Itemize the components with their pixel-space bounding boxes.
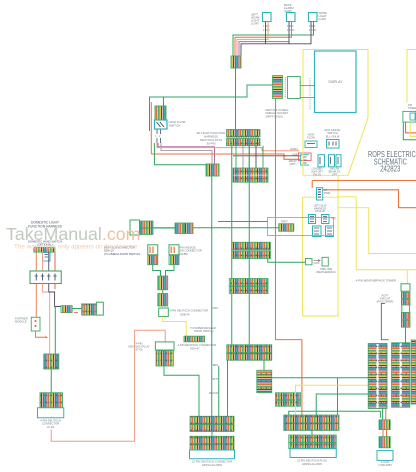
bottom-left connector sw [44, 354, 59, 369]
svg-text:(CAP): (CAP) [251, 22, 259, 26]
wire green Y center [162, 290, 164, 294]
wire salmon sw down [43, 284, 50, 355]
pins under switch S1 [157, 130, 161, 144]
wire gray switch to CN-B [161, 143, 212, 164]
watermark TakeManual.com [6, 224, 140, 244]
wire green M1 branch right [268, 259, 306, 263]
wire green CN-A to BL1 [235, 68, 237, 129]
shell R3 [290, 449, 336, 458]
label 57-06 [128, 341, 149, 351]
svg-text:1 BLK: 1 BLK [263, 25, 270, 28]
1CAN connector a [379, 420, 390, 430]
wire orange sw down to module [35, 284, 37, 318]
connector block M5 [276, 393, 301, 407]
svg-text:DT04-08: DT04-08 [315, 210, 325, 213]
wire green long B [248, 146, 250, 345]
svg-text:GRN: GRN [212, 307, 218, 310]
Y center connector 1 [158, 276, 168, 290]
svg-text:LF-D4: LF-D4 [47, 425, 55, 429]
wire green r-feed 1 [289, 411, 381, 418]
svg-text:HORN: HORN [290, 147, 298, 151]
wire salmon LF-D4 loop [51, 330, 165, 441]
wire green long A [231, 146, 233, 345]
Y left connector [148, 255, 158, 265]
connector block M3 wide [227, 345, 272, 361]
svg-text:OPT: OPT [332, 172, 338, 176]
wire green stack to col2 [405, 327, 407, 343]
work light LT3 [309, 13, 318, 22]
wire green branch to HF connector [163, 97, 165, 106]
label domestic light function harness [28, 221, 63, 229]
svg-text:TakeManual.com: TakeManual.com [6, 224, 140, 244]
label 1-pin wedge connector [178, 246, 202, 256]
label high flow opt [307, 133, 315, 140]
connector block M2 [229, 279, 268, 294]
title ROPS ELECTRICAL SCHEMATIC 242823 [368, 150, 416, 173]
wire green R1 to R2 [311, 431, 313, 436]
side labels left [209, 307, 218, 395]
wire green r-feed 3 [337, 378, 339, 415]
yellow box top [303, 50, 368, 176]
label 3D light function harness [197, 131, 226, 146]
svg-text:HDP24-24-23PN: HDP24-24-23PN [202, 463, 222, 467]
shell C3 [190, 450, 235, 459]
label high flow switch [169, 120, 186, 128]
yellow rectangle frame mid [302, 197, 338, 316]
wire orange 1CAN mid [383, 430, 387, 437]
wire orange module jog [36, 331, 48, 339]
wire green sw connector down [50, 369, 52, 393]
svg-text:2 TAN: 2 TAN [263, 29, 270, 32]
label hi-low beam [329, 167, 341, 177]
DDB-45 shell [159, 308, 169, 317]
57-06 connector [156, 351, 173, 367]
svg-text:ELL-GNLM: ELL-GNLM [326, 134, 340, 138]
cluster connector c [313, 226, 322, 237]
wire green display-connector to high flow switch [150, 85, 284, 131]
connector CN-B [206, 164, 219, 176]
label further module [15, 317, 28, 324]
wire green from switch right [154, 143, 206, 165]
label 22-pin deutsch connector [192, 460, 232, 467]
label 22 pin deutsch plug [297, 459, 327, 466]
wire orange long vertical [276, 99, 302, 415]
svg-text:30-PIN: 30-PIN [207, 142, 216, 146]
high flow opt symbol [305, 141, 317, 148]
svg-text:57-06: 57-06 [136, 348, 143, 352]
block C1 [190, 416, 234, 431]
svg-text:MODULE: MODULE [15, 320, 27, 324]
wire orange col1 to 1CAN [385, 409, 387, 420]
LF-D4 shell [38, 408, 64, 418]
svg-text:4-PIN DEUTSCH CONNECTOR: 4-PIN DEUTSCH CONNECTOR [178, 343, 217, 347]
wire navy sw3 [48, 252, 50, 271]
hi-low beam symbol [329, 155, 342, 167]
svg-text:DDB-45: DDB-45 [180, 312, 190, 316]
label DDA-47 [178, 343, 217, 350]
wire green stack sides [402, 305, 410, 312]
pin labels under LT1 [263, 25, 270, 32]
second terminal connector [175, 223, 193, 234]
connector HF plug [155, 106, 166, 120]
left harness shell [96, 302, 103, 315]
label 1-CAN [378, 460, 392, 467]
wire green 57-06 to bottom block [164, 366, 199, 416]
svg-text:1: 1 [155, 135, 157, 138]
wire green into dpdt upper [218, 221, 268, 223]
wire green CN-B long down [211, 176, 213, 416]
wire pink display 1 [300, 85, 314, 87]
column COL1 [368, 344, 387, 409]
wire red sw4 [54, 252, 56, 271]
wire pink display 2 [300, 97, 314, 99]
wire green col1 to 1CAN [382, 409, 384, 420]
terminal shell [130, 220, 140, 235]
wire magenta trunk [239, 42, 289, 56]
svg-text:HDP26-24-23SN: HDP26-24-23SN [302, 462, 322, 466]
label PB timer [408, 103, 416, 110]
wire green trunk to LT3 [233, 22, 314, 57]
svg-text:BECCR: BECCR [209, 392, 218, 395]
weatherpack box [322, 257, 328, 266]
relay box top right [403, 111, 416, 122]
label deutsch connector DDA-10 [104, 246, 140, 256]
Y center connector 2 [158, 294, 168, 307]
wire green feed c4 [227, 360, 229, 416]
cluster red tick [332, 217, 336, 219]
wire orange drum [151, 154, 301, 159]
DDA-47 connector [184, 336, 205, 342]
horn connector symbol [301, 155, 309, 165]
wire green Y left [153, 265, 161, 276]
horn option box [298, 153, 311, 161]
wire salmon trunk to LT1 [237, 22, 268, 57]
wire navy pin LT1 [265, 22, 267, 44]
label domestic hand switch [28, 240, 62, 247]
diode component [306, 259, 313, 265]
label pwm [324, 189, 330, 195]
svg-text:BRN: BRN [213, 364, 218, 367]
display connector shell [288, 77, 301, 99]
label DDB-45 [169, 309, 208, 317]
cluster connector d [326, 226, 334, 237]
wire green C1 to C2 [211, 432, 213, 437]
wire red from relay [406, 122, 416, 133]
block C2 [190, 436, 234, 450]
loader switch symbol [318, 155, 325, 167]
svg-text:4-PIN DEUTSCH CONNECTOR: 4-PIN DEUTSCH CONNECTOR [169, 309, 208, 313]
wire green r-feed 2 [316, 394, 368, 415]
label gun signal switch [324, 128, 341, 138]
svg-text:24PFF BK2(X): 24PFF BK2(X) [266, 114, 284, 118]
Y right connector [169, 255, 179, 265]
inline connector left [61, 306, 72, 313]
svg-text:2: 2 [159, 135, 161, 138]
wire green Y right [166, 265, 175, 276]
wire salmon sw2 [42, 252, 44, 271]
display connector column [273, 76, 283, 99]
yellow stub frame join [337, 175, 339, 197]
svg-text:DPDT: DPDT [281, 221, 288, 224]
wire green M4 to column1 [272, 377, 369, 379]
svg-text:242823: 242823 [380, 165, 401, 174]
wire yellow into stack [406, 270, 408, 292]
wires BL1 to BL2 [236, 146, 263, 168]
svg-text:DISPLAY: DISPLAY [328, 80, 343, 84]
stack connector a [401, 292, 410, 299]
stack connector d [401, 320, 410, 327]
wire navy pin LT2 [288, 22, 290, 44]
block R2 [289, 435, 337, 449]
label time one weatherpack [316, 267, 336, 274]
yellow branch y197 [338, 197, 416, 270]
label back-up alarm LT2 [284, 3, 294, 13]
cluster connector b [322, 215, 330, 224]
svg-text:SW D2: SW D2 [313, 172, 322, 176]
domestic aux box [43, 253, 51, 262]
wire green sw down [54, 307, 56, 355]
svg-text:1 BLK: 1 BLK [287, 25, 294, 28]
svg-text:(TO OMEGA DOOR SWITCH): (TO OMEGA DOOR SWITCH) [104, 252, 140, 256]
svg-text:(CAP): (CAP) [319, 17, 327, 21]
svg-text:(PACG BRKR): (PACG BRKR) [377, 300, 394, 304]
wire green into dpdt lower [153, 227, 279, 229]
wire navy sw to inline [49, 284, 61, 307]
svg-text:WHT: WHT [212, 378, 218, 381]
label loader switch [311, 167, 323, 177]
svg-text:DOOR SWITCH: DOOR SWITCH [194, 329, 213, 333]
yellow box right corner [407, 50, 416, 103]
label LF-D4 [40, 419, 61, 429]
pin text speck overlay on connector blocks [40, 130, 410, 450]
Y right plug [169, 245, 179, 255]
dpdt connector [279, 224, 294, 232]
wire orange into HF connector [150, 102, 152, 154]
wire green M3 to M4 [263, 360, 265, 370]
stack connector c [401, 312, 410, 319]
option frame orange [268, 218, 334, 236]
terminal connector [140, 221, 153, 235]
label left work light LT1 [251, 13, 260, 26]
yellow branch y207.7 [338, 208, 416, 254]
svg-text:PWM: PWM [324, 192, 330, 195]
svg-text:HI/B: HI/B [292, 152, 297, 156]
wire orange trunk to LT2 [235, 22, 292, 57]
wire salmon horn [157, 143, 299, 151]
svg-text:7-056-4887: 7-056-4887 [378, 463, 392, 467]
wire navy trunk return [241, 22, 311, 57]
57-06 shell [155, 342, 174, 350]
svg-text:1 BLK: 1 BLK [309, 25, 316, 28]
wire dark acpt hook [381, 304, 388, 340]
wire green inline to block [72, 308, 82, 310]
wire orange stub to pwm [311, 181, 313, 188]
further module component [31, 317, 40, 331]
svg-text:SWITCH: SWITCH [169, 124, 181, 128]
vertical connector block M4 [257, 370, 272, 393]
stack connector b [401, 300, 410, 306]
svg-text:4-PIN WEATHERPACK TOWER: 4-PIN WEATHERPACK TOWER [356, 279, 396, 283]
weatherpack tower shell [401, 284, 410, 291]
wire yellow DDB-45 to DDA-47 [163, 317, 187, 337]
1CAN connector b [379, 437, 390, 448]
left harness block [82, 304, 97, 315]
gun signal symbol [327, 140, 340, 149]
svg-text:WEATHERPACK: WEATHERPACK [316, 270, 336, 274]
label acpt circuit [377, 294, 394, 304]
wire yellow r-feed [296, 385, 369, 415]
high flow switch S1 [155, 120, 168, 129]
wire orange sw1 [35, 252, 37, 271]
display box [315, 51, 357, 113]
wire orange right upper [312, 180, 416, 182]
wire magenta switch to CN-B [158, 143, 215, 164]
work light LT2 [287, 13, 296, 22]
wire red sw down [54, 284, 56, 290]
connector block M1 [232, 242, 271, 258]
red tick marks [62, 312, 78, 314]
label deutsch 8-well [266, 108, 290, 118]
wire green feed c3 [218, 366, 220, 416]
svg-text:The watermark only appears on: The watermark only appears on the docume [14, 244, 138, 251]
pin labels under LT2 [287, 25, 295, 32]
pwm connector [317, 188, 323, 200]
svg-text:TIMER: TIMER [408, 106, 416, 110]
label work light LT3 [319, 11, 328, 21]
label horn [289, 147, 298, 166]
vertical pin text column [284, 77, 286, 98]
svg-text:2 ORG: 2 ORG [287, 29, 295, 32]
work light LT1 [263, 13, 272, 22]
wire green between terminals [140, 227, 176, 229]
pin labels under LT3 [309, 25, 317, 32]
connector block BL2 [233, 168, 268, 182]
block R1 [284, 415, 339, 430]
column COL2 [392, 343, 410, 407]
1CAN shell [377, 451, 393, 461]
wire green from relay [403, 122, 416, 140]
wire yellow from relay [410, 122, 416, 136]
connector CN-A [231, 56, 241, 68]
wire navy hi-beam [233, 155, 301, 157]
label cluster [314, 205, 327, 214]
column COL3 partial [411, 340, 416, 404]
Y left plug [148, 245, 158, 255]
svg-text:DDA-47: DDA-47 [190, 346, 200, 350]
LF-D4 block [40, 393, 63, 408]
label to wiper washer [190, 326, 216, 333]
domestic inline connector [34, 247, 55, 252]
domestic switch box [30, 271, 61, 284]
connector block BL1 [227, 130, 261, 146]
svg-text:(OPT): (OPT) [289, 162, 296, 166]
wire orange right step [323, 190, 416, 208]
cluster connector a [309, 215, 316, 224]
svg-text:FLOW: FLOW [307, 136, 315, 140]
svg-text:2 GRN: 2 GRN [309, 29, 317, 32]
gray arrow marks [314, 259, 321, 263]
